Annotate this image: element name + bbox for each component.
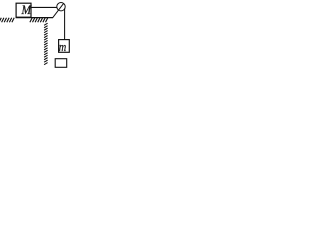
svg-text:m: m: [59, 40, 67, 54]
svg-text:M: M: [21, 2, 32, 17]
